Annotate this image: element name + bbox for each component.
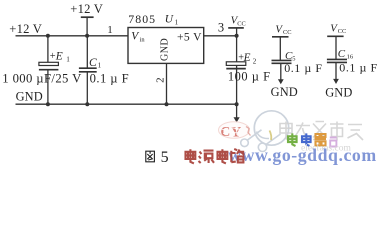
- svg-text:C: C: [89, 56, 97, 69]
- svg-text:GND: GND: [271, 85, 298, 99]
- wire: pin 2 ground lead: [166, 63, 168, 104]
- svg-text:+12 V: +12 V: [9, 22, 42, 36]
- power symbol Vcc (C5 branch): [272, 37, 289, 61]
- svg-text:+5 V: +5 V: [177, 31, 202, 44]
- wire: C1 lower lead: [86, 72, 88, 104]
- dian: [186, 149, 196, 163]
- ground arrow head (C16 branch): [333, 79, 339, 84]
- capacitor C16 plates: [327, 59, 347, 62]
- dian: [218, 149, 228, 163]
- svg-text:1: 1: [175, 19, 179, 27]
- wire: C5 lower lead to arrow: [280, 63, 282, 80]
- wire: +12V input rail: [16, 35, 129, 37]
- svg-text:E: E: [243, 52, 251, 64]
- svg-text:1: 1: [98, 61, 102, 69]
- svg-text:1 000 µF/25 V: 1 000 µF/25 V: [2, 71, 82, 85]
- svg-text:7805: 7805: [128, 12, 156, 26]
- svg-text:100 µ F: 100 µ F: [228, 70, 271, 84]
- svg-text:+12 V: +12 V: [70, 2, 103, 16]
- svg-text:C: C: [221, 124, 231, 139]
- capacitor C5 plates: [272, 60, 292, 63]
- power symbol Vcc (output node): [228, 28, 244, 36]
- capacitor E2 plates (electrolytic): [226, 62, 246, 69]
- svg-text:CC: CC: [338, 28, 347, 35]
- svg-text:CC: CC: [283, 29, 292, 36]
- lu: [231, 149, 244, 162]
- caption: figure number (tu 5): [146, 151, 155, 162]
- wire: E2 upper lead: [236, 36, 238, 62]
- wire: E2 lower lead down through ground bus to arrow: [236, 65, 238, 117]
- svg-text:5: 5: [161, 149, 169, 166]
- yuan: [199, 151, 215, 163]
- watermark colored characters: [270, 131, 337, 147]
- svg-text:GND: GND: [325, 86, 352, 100]
- regulator U1 7805 body: [128, 28, 204, 64]
- wire: C1 upper lead: [86, 36, 88, 68]
- svg-text:+: +: [50, 51, 56, 62]
- ground arrow head (E2 branch): [234, 117, 240, 122]
- svg-text:C: C: [338, 48, 346, 60]
- wire: ground bus: [16, 103, 237, 105]
- wire: regulator output to Vcc node: [204, 35, 237, 37]
- svg-text:2: 2: [154, 77, 166, 83]
- capacitor E1 plates (electrolytic): [39, 62, 59, 69]
- power symbol +12V (top): [81, 17, 94, 36]
- svg-text:2: 2: [253, 57, 257, 65]
- watermark stamp ellipse: [219, 122, 250, 139]
- watermark outlined characters (dian zi fa shao you): [280, 122, 363, 141]
- ground arrow head (C5 branch): [278, 79, 284, 84]
- wire: C16 lower lead to arrow: [335, 62, 337, 79]
- caption: red characters (dian yuan dian lu): [186, 149, 245, 163]
- svg-text:www.go-gddq.com: www.go-gddq.com: [228, 145, 377, 165]
- svg-text:1: 1: [66, 55, 70, 63]
- svg-text:1: 1: [107, 24, 113, 36]
- capacitor C1 plates: [79, 68, 97, 72]
- svg-text:CC: CC: [237, 21, 246, 28]
- svg-text:E: E: [55, 50, 63, 62]
- svg-text:3: 3: [218, 21, 224, 35]
- watermark logo circle: [241, 111, 289, 152]
- svg-text:in: in: [140, 36, 146, 43]
- wire: E1 upper lead: [47, 36, 49, 63]
- svg-text:0.1 µ F: 0.1 µ F: [284, 61, 322, 75]
- wire: E1 lower lead: [47, 70, 49, 105]
- svg-text:U: U: [165, 13, 174, 25]
- svg-text:GND: GND: [159, 38, 170, 61]
- svg-text:0.1 µ F: 0.1 µ F: [339, 61, 377, 75]
- svg-text:GND: GND: [16, 89, 43, 103]
- svg-text:0.1 µ F: 0.1 µ F: [90, 72, 129, 86]
- power symbol Vcc (C16 branch): [327, 36, 343, 59]
